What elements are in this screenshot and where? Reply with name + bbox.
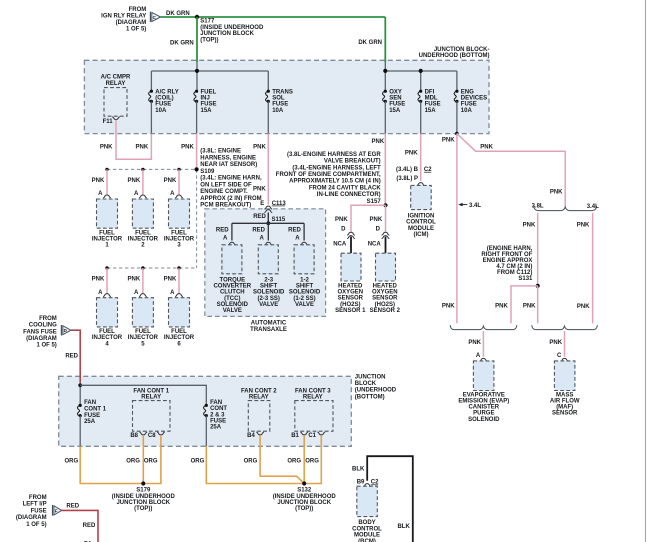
svg-text:ENGINE COMPT.: ENGINE COMPT. [200,189,248,195]
splice bus S109 row1 [107,168,197,170]
svg-text:DEVICES: DEVICES [461,96,487,102]
svg-text:(TOP)): (TOP)) [200,38,218,44]
svg-text:APPROX (2 IN) FROM: APPROX (2 IN) FROM [200,196,261,202]
svg-text:PNK: PNK [405,151,418,157]
svg-text:PNK: PNK [136,144,149,150]
svg-text:25A: 25A [84,419,96,425]
wire PNK S131 down [537,286,539,323]
svg-text:HEATED: HEATED [373,284,398,290]
svg-text:BLOCK: BLOCK [355,381,377,387]
svg-text:15A: 15A [425,108,437,114]
fan junction block label [355,374,397,400]
svg-text:(COIL): (COIL) [155,96,173,102]
svg-text:FUEL: FUEL [135,329,151,335]
svg-text:S157: S157 [367,199,382,205]
svg-text:SEN: SEN [389,96,401,102]
svg-text:ENG: ENG [461,89,474,95]
svg-text:(TCC): (TCC) [224,296,240,302]
svg-text:PNK: PNK [128,277,141,283]
fuel injector 6 [164,266,195,347]
svg-text:MASS: MASS [556,392,573,398]
wire PNK 3.8L branch [537,213,539,286]
wire PNK diagonal to x565 [457,134,565,206]
svg-text:EVAPORATIVE: EVAPORATIVE [463,392,505,398]
wire ORG B1 down [303,435,305,484]
wire grey fan bus [80,385,206,405]
svg-text:FUEL: FUEL [171,230,187,236]
svg-text:S109: S109 [200,169,215,175]
wire PNK dfi mdl fuse to ICM [420,134,422,181]
svg-text:INJECTOR: INJECTOR [92,335,123,341]
svg-text:VALVE: VALVE [295,302,314,308]
wire BLK BCM loop [367,456,413,542]
svg-text:(UNDERHOOD: (UNDERHOOD [355,388,397,394]
svg-text:JUNCTION BLOCK: JUNCTION BLOCK [200,31,254,37]
svg-text:PNK: PNK [523,304,536,310]
svg-text:PNK: PNK [549,340,562,346]
svg-text:DK GRN: DK GRN [166,11,190,17]
A/C CMPR relay [101,75,131,125]
1-2 shift solenoid valve [288,228,321,308]
svg-text:PNK: PNK [495,304,508,310]
wire bus y71 left [151,70,268,72]
wire ORG B8 down [142,435,144,484]
junction block underhood (bottom) [84,60,489,133]
wire distribution y223 [232,223,304,240]
svg-text:3.4L: 3.4L [587,204,599,210]
wire ORG fan cont 1 fuse to S179 [80,446,141,483]
svg-text:FUEL: FUEL [135,230,151,236]
svg-text:PNK: PNK [577,304,590,310]
svg-text:SENSOR: SENSOR [338,296,364,302]
svg-text:(1-2 SS): (1-2 SS) [293,296,315,302]
ignition control module (ICM) [396,167,436,238]
wire grey x151 down to fuse [150,71,152,91]
source arrow D from cooling fans fuse [23,316,71,349]
svg-text:IN-LINE CONNECTOR): IN-LINE CONNECTOR) [317,192,381,198]
node S177 text [200,19,264,44]
svg-text:(DIAGRAM: (DIAGRAM [116,20,147,26]
wire to S115 [267,212,269,223]
svg-text:INJECTOR: INJECTOR [164,335,195,341]
svg-text:PNK: PNK [550,189,563,195]
svg-text:PNK: PNK [372,139,385,145]
svg-text:MDL: MDL [425,96,438,102]
svg-text:(2-3 SS): (2-3 SS) [258,296,280,302]
svg-text:D: D [376,226,381,232]
node S157 dot [383,203,387,207]
svg-text:RED: RED [66,504,79,510]
svg-text:B9: B9 [357,480,365,486]
svg-text:RED: RED [252,228,265,234]
svg-text:S179: S179 [136,488,151,494]
node S109 text [200,149,262,209]
svg-text:VALVE: VALVE [259,302,278,308]
wire ORG fan cont 2&3 fuse to S132 [206,446,302,483]
svg-text:INJECTOR: INJECTOR [164,237,195,243]
svg-text:RELAY: RELAY [106,81,126,87]
svg-text:PNK: PNK [164,178,177,184]
svg-text:FROM: FROM [129,7,147,13]
svg-text:FROM: FROM [39,316,57,322]
heated oxygen sensor 1 [333,217,366,314]
svg-text:RELAY: RELAY [303,394,323,400]
svg-text:MODULE: MODULE [408,226,434,232]
junction block label [419,47,490,59]
wire PNK oxy sen fuse to S157 [384,134,386,206]
svg-text:SHIFT: SHIFT [260,283,278,289]
svg-text:PNK: PNK [100,144,113,150]
TCC solenoid valve [213,228,251,314]
svg-text:RED: RED [65,353,78,359]
svg-text:NCA: NCA [333,241,347,247]
svg-text:FUSE: FUSE [461,102,477,108]
evaporative emission (EVAP) canister purge solenoid [458,331,509,423]
svg-text:JUNCTION BLOCK-: JUNCTION BLOCK- [434,47,490,53]
relay FAN CONT 2 RELAY [241,388,277,439]
svg-text:A: A [98,290,103,296]
svg-text:BLK: BLK [352,466,365,472]
svg-text:PNK: PNK [468,340,481,346]
svg-text:A/C CMPR: A/C CMPR [101,75,131,81]
svg-text:ORG: ORG [126,458,140,464]
svg-text:F11: F11 [103,119,114,125]
svg-text:C: C [557,353,562,359]
svg-text:A: A [134,191,139,197]
svg-text:2-3: 2-3 [264,277,273,283]
svg-text:FAN: FAN [84,400,96,406]
svg-text:MODULE: MODULE [354,533,380,539]
svg-text:(HO2S): (HO2S) [375,302,395,308]
svg-text:SHIFT: SHIFT [296,283,314,289]
svg-text:PNK: PNK [128,178,141,184]
wire RED cooling fans [71,330,80,382]
svg-text:3.8L: 3.8L [532,204,544,210]
node S109 dot [195,167,199,171]
junction dot x197 y71 [195,69,199,73]
svg-text:SOL: SOL [272,96,285,102]
svg-text:PNK: PNK [523,223,536,229]
svg-text:S131: S131 [518,276,533,282]
svg-text:EMISSION (EVAP): EMISSION (EVAP) [458,399,509,405]
svg-text:CONVERTER: CONVERTER [213,283,251,289]
svg-text:CONT: CONT [210,406,227,412]
svg-text:F: F [55,508,58,513]
wire grey x197 edge to bus [196,62,198,91]
wire PNK trans sol fuse to C113 [267,134,269,205]
fuel injector 3 [164,168,195,249]
node S131 text [481,246,533,282]
wire PNK S131 left branch [511,286,538,323]
automatic transaxle label [250,320,287,332]
junction dot fan feed [78,383,82,387]
wire PNK A/C relay coil loop [116,120,151,160]
fuse FAN CONT 1 FUSE 25A [77,400,106,446]
svg-text:DK GRN: DK GRN [358,40,382,46]
splice bus row2 [107,267,197,269]
wire PNK 3.4L branch [592,213,594,323]
wire DK GRN horizontal from C [161,16,386,18]
svg-text:SENSOR: SENSOR [552,411,578,417]
svg-text:(3.4L-ENGINE HARNESS, LEFT: (3.4L-ENGINE HARNESS, LEFT [292,165,381,171]
relay FAN CONT 1 RELAY [130,388,170,439]
svg-text:15A: 15A [201,108,213,114]
svg-text:FUEL: FUEL [99,329,115,335]
wire ORG C1 down-left [306,435,321,484]
node S132 [273,481,337,512]
svg-text:HEATED: HEATED [338,284,363,290]
fan junction block (underhood bottom) [59,376,352,446]
wire ORG B4 to S132 [260,435,304,483]
svg-text:FUSE: FUSE [201,102,217,108]
fuel injector 1 [92,168,123,249]
svg-text:(BOTTOM): (BOTTOM) [355,394,385,400]
wire grey into fan block [79,383,81,406]
svg-text:B1: B1 [291,433,299,439]
fuel injector 2 [128,168,159,249]
svg-text:10A: 10A [155,108,167,114]
connector C113 pin E [260,201,286,213]
svg-text:A: A [134,290,139,296]
svg-text:PNK: PNK [181,144,194,150]
svg-text:PNK: PNK [164,277,177,283]
brace merge to EVAP [450,325,517,330]
svg-text:BLK: BLK [397,524,410,530]
wire PNK fuel inj fuse to S109 [196,134,198,170]
svg-text:(3.8L) P: (3.8L) P [396,176,418,182]
svg-text:PNK: PNK [442,137,455,143]
page border line [645,0,647,542]
fuse DFI MDL FUSE 15A [418,89,441,133]
svg-text:BODY: BODY [358,520,375,526]
svg-text:RED: RED [83,523,96,529]
fuse FAN CONT 2 & 3 FUSE 25A [204,400,228,446]
svg-text:15A: 15A [389,108,401,114]
svg-text:TRANS: TRANS [272,89,293,95]
svg-text:IGNITION: IGNITION [408,213,435,219]
svg-text:NEAR IAT SENSOR): NEAR IAT SENSOR) [200,162,257,168]
node S179 [112,481,176,512]
svg-text:OXY: OXY [389,89,402,95]
svg-text:(DIAGRAM: (DIAGRAM [26,336,57,342]
fuse FUEL INJ FUSE 15A [194,89,217,133]
svg-text:PNK: PNK [370,217,383,223]
bus vertical dashed S109 down [196,169,198,268]
svg-text:PNK: PNK [253,144,266,150]
svg-text:PCM BREAKOUT): PCM BREAKOUT) [200,203,251,209]
svg-text:B8: B8 [130,433,138,439]
svg-text:PNK: PNK [577,223,590,229]
svg-text:A: A [170,290,175,296]
brace split 3.8L/3.4L [532,204,600,211]
svg-text:FRONT OF ENGINE COMPARTMENT,: FRONT OF ENGINE COMPARTMENT, [276,172,381,178]
svg-text:ORG: ORG [244,458,258,464]
svg-text:OXYGEN: OXYGEN [372,290,398,296]
svg-text:(MAF): (MAF) [556,405,573,411]
svg-text:OXYGEN: OXYGEN [337,290,363,296]
2-3 shift solenoid valve [252,228,285,308]
wire grey x268 down to fuse [267,71,269,91]
svg-text:(INSIDE UNDERHOOD: (INSIDE UNDERHOOD [112,494,176,500]
svg-text:INJ: INJ [201,96,210,102]
svg-text:(3.4L) B: (3.4L) B [396,167,419,173]
svg-text:IGN RLY RELAY: IGN RLY RELAY [101,14,146,20]
fuel injector 5 [128,266,159,347]
svg-text:10A: 10A [272,108,284,114]
svg-text:FUSE: FUSE [31,508,47,514]
source arrow F from left I/P fuse [16,495,62,528]
svg-text:3.4L: 3.4L [469,203,481,209]
svg-text:(DIAGRAM: (DIAGRAM [16,515,47,521]
svg-text:SOLENOID: SOLENOID [289,290,321,296]
svg-text:VALVE BREAKOUT): VALVE BREAKOUT) [324,159,381,165]
svg-text:AIR FLOW: AIR FLOW [550,399,580,405]
svg-text:PNK: PNK [253,186,266,192]
svg-text:PURGE: PURGE [473,411,494,417]
svg-text:S177: S177 [200,19,215,25]
svg-text:CLUTCH: CLUTCH [220,290,245,296]
svg-text:(3.8L-ENGINE HARNESS AT EGR: (3.8L-ENGINE HARNESS AT EGR [287,152,381,158]
mass air flow (MAF) sensor [549,331,579,417]
svg-text:(3.4L: ENGINE HARN,: (3.4L: ENGINE HARN, [200,176,262,182]
wire PNK S157 down [385,205,387,232]
node S131 dot [536,284,540,288]
svg-text:C8: C8 [148,433,156,439]
svg-text:(INSIDE UNDERHOOD: (INSIDE UNDERHOOD [273,494,337,500]
svg-text:JUNCTION BLOCK: JUNCTION BLOCK [277,500,331,506]
svg-text:ORG: ORG [305,458,319,464]
svg-text:TRANSAXLE: TRANSAXLE [250,327,287,333]
fuel injector 4 [92,266,123,347]
svg-text:VALVE: VALVE [223,308,242,314]
svg-text:S115: S115 [272,217,286,223]
source arrow C from ign rly relay [101,7,160,33]
wire DK GRN down at x197 [196,17,198,62]
svg-text:PNK: PNK [92,277,105,283]
wire RED left I/P [62,510,98,542]
svg-text:A: A [170,191,175,197]
svg-text:FUSE: FUSE [272,102,288,108]
svg-text:FROM: FROM [29,495,47,501]
heated oxygen sensor 2 [368,217,401,314]
svg-text:LEFT I/P: LEFT I/P [23,502,47,508]
svg-text:A: A [476,353,481,359]
svg-text:AUTOMATIC: AUTOMATIC [251,320,287,326]
svg-text:1 OF 5): 1 OF 5) [26,522,46,528]
wire bus y71 right [385,62,457,91]
junction dot eng devices at block edge [455,132,459,136]
svg-text:A/C RLY: A/C RLY [155,89,178,95]
svg-text:ORG: ORG [287,458,301,464]
svg-text:ORG: ORG [144,458,158,464]
svg-text:B4: B4 [247,433,255,439]
svg-text:FUSE: FUSE [389,102,405,108]
svg-text:1-2: 1-2 [300,277,309,283]
svg-text:PNK: PNK [92,178,105,184]
svg-text:FUSE: FUSE [425,102,441,108]
automatic transaxle box [205,209,326,317]
svg-text:SOLENOID: SOLENOID [217,302,249,308]
svg-text:FUSE: FUSE [84,413,100,419]
svg-text:A: A [223,236,228,242]
svg-text:INJECTOR: INJECTOR [92,237,123,243]
svg-text:FROM 24 CAVITY BLACK: FROM 24 CAVITY BLACK [309,185,381,191]
svg-text:FROM C112): FROM C112) [497,270,532,276]
svg-text:INJECTOR: INJECTOR [128,237,159,243]
svg-text:(TOP)): (TOP)) [134,506,152,512]
svg-text:(INSIDE UNDERHOOD: (INSIDE UNDERHOOD [200,25,264,31]
node S177 junction dot [195,15,199,19]
svg-text:25A: 25A [210,424,222,430]
label 3.4L arrow [458,203,481,209]
svg-text:ORG: ORG [191,458,205,464]
svg-text:APPROXIMATELY 10.5 CM (4 IN): APPROXIMATELY 10.5 CM (4 IN) [289,179,381,185]
svg-text:FUSE: FUSE [210,418,226,424]
svg-text:SENSOR 2: SENSOR 2 [370,308,401,314]
svg-text:RED: RED [253,214,266,220]
svg-text:FUSE: FUSE [155,102,171,108]
svg-text:PNK: PNK [480,145,493,151]
svg-text:HARNESS, ENGINE: HARNESS, ENGINE [200,155,256,161]
svg-text:JUNCTION BLOCK: JUNCTION BLOCK [116,500,170,506]
svg-text:E: E [260,201,264,207]
svg-text:COOLING: COOLING [29,323,57,329]
svg-text:SOLENOID: SOLENOID [253,290,285,296]
svg-text:DFI: DFI [425,89,435,95]
svg-text:S132: S132 [297,488,312,494]
svg-text:RED: RED [288,228,301,234]
fuse OXY SEN FUSE 15A [383,89,406,133]
svg-text:INJECTOR: INJECTOR [128,335,159,341]
svg-text:TORQUE: TORQUE [220,277,246,283]
svg-text:FUEL: FUEL [99,230,115,236]
junction dot x385 y71 [383,69,387,73]
brace merge to MAF [532,325,598,330]
svg-text:JUNCTION: JUNCTION [355,374,386,380]
svg-text:A: A [98,191,103,197]
svg-text:FUEL: FUEL [171,329,187,335]
svg-text:CANISTER: CANISTER [468,405,499,411]
fuse ENG DEVICES FUSE 10A [454,89,487,133]
svg-text:RELAY: RELAY [249,394,269,400]
svg-text:10A: 10A [461,108,473,114]
svg-text:A: A [259,236,264,242]
svg-text:NCA: NCA [368,241,382,247]
svg-text:ON LEFT SIDE OF: ON LEFT SIDE OF [200,182,252,188]
svg-text:FUEL: FUEL [201,89,217,95]
svg-text:ORG: ORG [65,458,79,464]
svg-text:(ICM): (ICM) [414,232,429,238]
svg-text:A: A [295,236,300,242]
svg-text:1 OF 5): 1 OF 5) [36,343,56,349]
svg-text:D: D [341,226,346,232]
svg-text:UNDERHOOD (BOTTOM): UNDERHOOD (BOTTOM) [419,53,490,59]
wire PNK x457 long down [456,134,458,324]
svg-text:CONT 1: CONT 1 [84,407,107,413]
junction dot x421 y71 [419,69,423,73]
svg-text:SOLENOID: SOLENOID [468,417,500,423]
wire DK GRN down at x385 [384,17,386,62]
fuse TRANS SOL FUSE 10A [266,89,293,133]
svg-text:PNK: PNK [335,217,348,223]
svg-text:RELAY: RELAY [141,394,161,400]
svg-text:(TOP)): (TOP)) [295,506,313,512]
svg-text:(ENGINE HARN,: (ENGINE HARN, [487,246,533,252]
svg-text:SENSOR: SENSOR [372,296,398,302]
svg-text:(3.8L: ENGINE: (3.8L: ENGINE [200,149,241,155]
body control module (BCM) [352,480,382,542]
svg-text:DK GRN: DK GRN [170,40,194,46]
